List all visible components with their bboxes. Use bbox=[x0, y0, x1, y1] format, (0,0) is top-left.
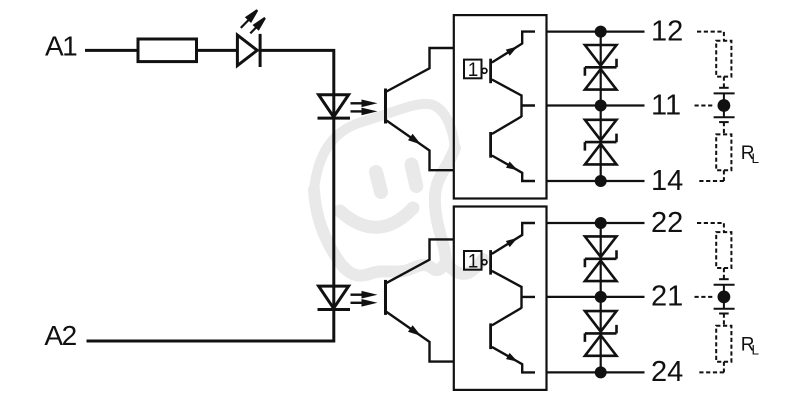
svg-text:22: 22 bbox=[651, 207, 683, 239]
svg-text:1: 1 bbox=[468, 60, 479, 81]
svg-text:A1: A1 bbox=[45, 31, 77, 62]
svg-text:11: 11 bbox=[651, 89, 681, 121]
svg-text:21: 21 bbox=[651, 281, 683, 313]
svg-text:1: 1 bbox=[468, 251, 479, 272]
svg-text:A2: A2 bbox=[44, 320, 76, 351]
svg-text:14: 14 bbox=[651, 165, 683, 197]
svg-text:L: L bbox=[752, 342, 760, 357]
svg-text:12: 12 bbox=[651, 15, 683, 47]
svg-text:L: L bbox=[752, 151, 760, 166]
svg-text:24: 24 bbox=[651, 356, 683, 388]
